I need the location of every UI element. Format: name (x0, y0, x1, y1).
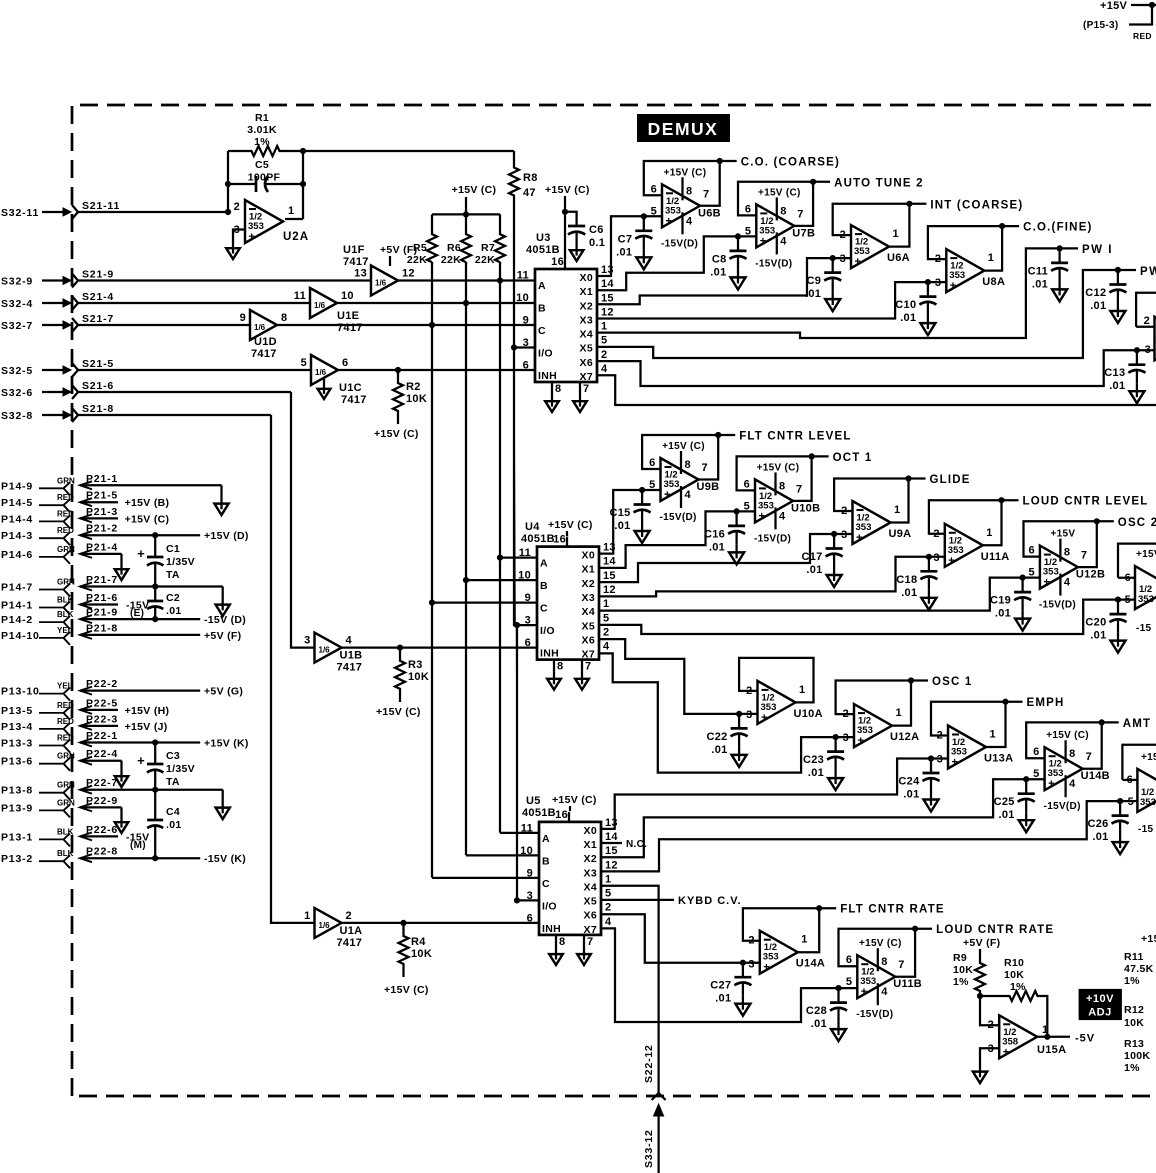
svg-text:10K: 10K (953, 964, 973, 976)
capacitor C22 (707, 711, 748, 767)
capacitor C5 100PF (228, 159, 303, 192)
svg-text:INH: INH (540, 648, 559, 660)
svg-text:I/O: I/O (542, 900, 557, 912)
svg-text:FLT CNTR LEVEL: FLT CNTR LEVEL (739, 431, 851, 443)
ground for P21-7 (216, 587, 230, 617)
svg-text:+: + (1003, 1046, 1009, 1058)
op-amp U9A (834, 474, 971, 544)
svg-text:X0: X0 (580, 272, 593, 284)
svg-text:S21-5: S21-5 (82, 358, 114, 370)
svg-text:P14-9: P14-9 (1, 480, 33, 492)
op-amp U9B (642, 431, 852, 524)
svg-text:2: 2 (601, 349, 607, 361)
node P21-3 (P14-4) (1, 506, 169, 529)
svg-text:2: 2 (1144, 315, 1150, 327)
svg-text:R12: R12 (1124, 1004, 1144, 1016)
capacitor C20 (1085, 597, 1126, 653)
svg-text:7417: 7417 (337, 937, 363, 949)
svg-text:.01: .01 (1090, 630, 1106, 642)
svg-text:8: 8 (555, 383, 561, 395)
svg-text:C26: C26 (1088, 818, 1109, 830)
svg-text:OSC 2: OSC 2 (1118, 517, 1156, 529)
svg-text:8: 8 (881, 956, 887, 968)
svg-text:7417: 7417 (337, 662, 363, 674)
svg-text:1/6: 1/6 (254, 323, 266, 332)
node +15V (P15-3) RED supply entry (1083, 0, 1156, 41)
svg-text:14: 14 (601, 278, 614, 290)
svg-text:+: + (664, 489, 670, 501)
capacitor C11 (1028, 245, 1068, 301)
wire U5 X3 to sheet-edge op-amp pin5 (601, 801, 1120, 871)
resistor R9 10K 1% (953, 952, 985, 996)
op-amp U10B (737, 452, 873, 545)
svg-text:.01: .01 (811, 1018, 827, 1030)
svg-text:S32-8: S32-8 (1, 410, 33, 422)
svg-text:3: 3 (748, 959, 754, 971)
capacitor C25 (994, 776, 1035, 832)
wire U1D out to U3 pin C (277, 324, 535, 326)
capacitor C7 (616, 213, 652, 269)
svg-text:P21-6: P21-6 (86, 592, 118, 604)
svg-text:-15V(D): -15V(D) (755, 258, 792, 269)
node P21-1 (P14-9) (1, 473, 222, 496)
svg-text:+15V (C): +15V (C) (662, 441, 705, 452)
svg-text:X1: X1 (582, 564, 595, 576)
svg-text:16: 16 (555, 809, 568, 821)
svg-text:8: 8 (779, 480, 785, 492)
svg-text:4051B: 4051B (521, 533, 555, 545)
svg-text:7: 7 (898, 959, 904, 971)
svg-text:U11A: U11A (981, 551, 1010, 563)
svg-text:+15V: +15V (1050, 529, 1075, 540)
svg-text:1%: 1% (1010, 981, 1026, 993)
svg-text:6: 6 (846, 954, 852, 966)
svg-text:BLK: BLK (57, 827, 74, 836)
svg-text:+15V (C): +15V (C) (664, 167, 707, 178)
wire R9/R10 node to U15A pin2 (977, 993, 1001, 1025)
svg-text:P21-4: P21-4 (86, 541, 118, 553)
svg-text:X4: X4 (582, 606, 595, 618)
op-amp U6B (644, 157, 840, 250)
svg-text:U1F: U1F (343, 244, 365, 256)
svg-text:INT (COARSE): INT (COARSE) (930, 199, 1023, 211)
svg-text:P21-3: P21-3 (86, 506, 118, 518)
capacitor C24 (898, 755, 939, 811)
svg-text:X2: X2 (582, 578, 595, 590)
buffer U1D (240, 310, 288, 360)
svg-text:U6A: U6A (887, 252, 910, 264)
svg-text:YEL: YEL (57, 626, 73, 635)
op-amp U13B (partial at sheet edge) (1118, 544, 1156, 634)
svg-text:7: 7 (585, 661, 591, 673)
svg-text:X5: X5 (582, 620, 595, 632)
svg-text:7: 7 (1086, 751, 1092, 763)
svg-text:1: 1 (894, 504, 900, 516)
demultiplexer U5 4051B (520, 809, 618, 965)
wire U5 X2 to U14B pin5 (601, 779, 1045, 857)
svg-text:P13-10: P13-10 (1, 686, 40, 698)
svg-text:U9A: U9A (889, 528, 912, 540)
svg-text:6: 6 (744, 478, 750, 490)
svg-text:YEL: YEL (57, 682, 73, 691)
svg-text:8: 8 (557, 661, 563, 673)
svg-text:P22-1: P22-1 (86, 730, 118, 742)
svg-text:7: 7 (796, 483, 802, 495)
svg-text:1: 1 (801, 934, 807, 946)
svg-text:RED: RED (57, 509, 74, 518)
svg-text:4051B: 4051B (522, 807, 556, 819)
node P22-6 (P13-1) (1, 824, 149, 847)
wire U5 X7 to U11B pin5 (601, 928, 857, 1022)
svg-text:4: 4 (686, 215, 693, 227)
svg-text:C27: C27 (710, 980, 731, 992)
wire U4 X0 to U9B pin5 (599, 490, 661, 554)
node PW2 output (1118, 266, 1156, 278)
svg-text:X3: X3 (584, 867, 597, 879)
svg-text:X6: X6 (582, 634, 595, 646)
svg-text:P21-8: P21-8 (86, 622, 118, 634)
svg-text:U1B: U1B (340, 650, 363, 662)
svg-text:.01: .01 (616, 246, 632, 258)
svg-text:AUTO TUNE 2: AUTO TUNE 2 (834, 177, 924, 189)
svg-text:-15: -15 (1136, 623, 1151, 634)
svg-text:+15V (C): +15V (C) (1046, 730, 1089, 741)
svg-text:U1A: U1A (340, 925, 363, 937)
svg-text:GRN: GRN (57, 476, 75, 485)
svg-text:X3: X3 (582, 592, 595, 604)
svg-text:S32-4: S32-4 (1, 298, 33, 310)
node +5V (F) above U1F (380, 244, 417, 266)
svg-text:-5V: -5V (1075, 1033, 1095, 1045)
svg-text:P13-6: P13-6 (1, 756, 33, 768)
svg-text:8: 8 (559, 936, 565, 948)
svg-text:+5V (F): +5V (F) (204, 630, 241, 642)
svg-text:+15V (C): +15V (C) (758, 187, 801, 198)
node S21-4 input from S32-4 (1, 291, 310, 310)
svg-text:1/6: 1/6 (319, 921, 331, 930)
svg-text:C: C (538, 325, 546, 337)
svg-text:+: + (760, 235, 766, 247)
node KYBD C.V. on U5 X5 (601, 895, 742, 907)
svg-text:X0: X0 (582, 550, 595, 562)
svg-text:2: 2 (841, 505, 847, 517)
svg-text:A: A (542, 833, 550, 845)
ground for P21-4 (115, 554, 128, 580)
wire U3 X0 to U6B pin5 (597, 216, 662, 276)
svg-text:-15V (D): -15V (D) (204, 614, 246, 626)
svg-text:C25: C25 (994, 796, 1015, 808)
svg-text:OSC 1: OSC 1 (932, 676, 973, 688)
node P21-9 (P14-2) (1, 607, 246, 630)
node S21-8 input from S32-8 (1, 403, 271, 422)
capacitor C17 (802, 531, 843, 587)
svg-text:X3: X3 (580, 314, 593, 326)
svg-text:C7: C7 (618, 233, 633, 245)
resistor R13 100K 1% label (1124, 1038, 1150, 1074)
svg-text:2: 2 (843, 708, 849, 720)
node +5V (F) supply (963, 937, 1000, 958)
svg-text:P22-7: P22-7 (86, 777, 118, 789)
svg-text:U8A: U8A (982, 276, 1005, 288)
op-amp U14B (1026, 718, 1151, 812)
svg-text:7: 7 (587, 936, 593, 948)
svg-text:C17: C17 (802, 551, 823, 563)
svg-text:R10: R10 (1004, 957, 1024, 969)
svg-text:P21-7: P21-7 (86, 574, 118, 586)
svg-text:C6: C6 (589, 224, 604, 236)
svg-text:RED: RED (57, 717, 74, 726)
svg-text:2: 2 (937, 730, 943, 742)
svg-text:9: 9 (523, 315, 529, 327)
svg-text:5: 5 (603, 612, 609, 624)
svg-text:7: 7 (583, 383, 589, 395)
svg-text:-15V (K): -15V (K) (204, 853, 246, 865)
wire select bus A (R7) (497, 262, 503, 833)
svg-text:S32-9: S32-9 (1, 276, 33, 288)
svg-text:6: 6 (745, 203, 751, 215)
op-amp U7B (738, 177, 924, 269)
svg-text:GRN: GRN (57, 752, 75, 761)
capacitor C27 (710, 960, 751, 1016)
svg-text:U12A: U12A (890, 731, 919, 743)
svg-text:7: 7 (1081, 550, 1087, 562)
node P21-2 (P14-3) (1, 523, 249, 546)
svg-text:.01: .01 (806, 564, 822, 576)
svg-text:.01: .01 (166, 605, 182, 617)
svg-text:KYBD C.V.: KYBD C.V. (678, 895, 742, 907)
svg-text:.01: .01 (998, 809, 1014, 821)
svg-text:U1C: U1C (339, 382, 362, 394)
svg-text:A: A (538, 280, 546, 292)
svg-text:4: 4 (346, 635, 353, 647)
wire R10 to U15A output (1037, 996, 1095, 1045)
wire U3 X4 to PW1 (597, 248, 1060, 338)
svg-text:7: 7 (797, 208, 803, 220)
svg-text:RED: RED (57, 526, 74, 535)
svg-text:13: 13 (354, 268, 367, 280)
resistor R5 22K (407, 214, 437, 266)
op-amp U8A (928, 222, 1093, 293)
svg-text:(P15-3): (P15-3) (1083, 20, 1118, 31)
svg-text:14: 14 (603, 556, 616, 568)
svg-text:+15V (K): +15V (K) (204, 738, 249, 750)
svg-text:1: 1 (799, 684, 805, 696)
buffer U1A (304, 908, 362, 949)
svg-text:1%: 1% (1124, 1062, 1140, 1074)
svg-text:5: 5 (1125, 594, 1131, 606)
wire U3 X1 to U7B pin5 (597, 236, 756, 290)
svg-text:X6: X6 (580, 357, 593, 369)
svg-text:+5V (F): +5V (F) (380, 244, 417, 256)
op-amp U15A (980, 1015, 1066, 1064)
svg-text:U15A: U15A (1037, 1044, 1066, 1056)
node S21-6 input from S32-6 (1, 380, 291, 399)
svg-text:1: 1 (896, 707, 902, 719)
svg-text:P21-5: P21-5 (86, 490, 118, 502)
svg-text:C24: C24 (898, 776, 920, 788)
ground below C6 (570, 243, 584, 261)
svg-text:INH: INH (538, 370, 557, 382)
node P22-8 (P13-2) (1, 846, 246, 869)
svg-text:+15V (B): +15V (B) (125, 497, 170, 509)
svg-text:+: + (948, 555, 954, 567)
svg-text:6: 6 (651, 183, 657, 195)
svg-text:S32-5: S32-5 (1, 365, 33, 377)
wire U1A out to U5 INH (342, 920, 540, 926)
capacitor C1 1/35V TA (137, 532, 195, 590)
svg-text:C18: C18 (896, 574, 917, 586)
svg-text:+15V (C): +15V (C) (552, 794, 597, 806)
capacitor C9 (805, 255, 841, 311)
wire U5 X4 to S22-12 (601, 886, 659, 1093)
svg-text:7417: 7417 (251, 348, 277, 360)
svg-text:5: 5 (601, 335, 607, 347)
svg-text:R7: R7 (481, 242, 495, 254)
node P22-5 (P13-5) (1, 697, 169, 720)
svg-text:C13: C13 (1104, 367, 1125, 379)
demultiplexer U4 4051B (518, 534, 616, 690)
node P22-2 (P13-10) (1, 678, 243, 701)
svg-text:BLK: BLK (57, 610, 74, 619)
svg-text:4051B: 4051B (526, 244, 560, 256)
svg-text:R6: R6 (447, 242, 461, 254)
svg-text:11: 11 (294, 290, 306, 302)
svg-text:C3: C3 (166, 750, 180, 762)
svg-text:U14B: U14B (1081, 770, 1110, 782)
DEMUX title block (637, 114, 730, 142)
svg-text:2: 2 (840, 229, 846, 241)
svg-text:+5V (F): +5V (F) (963, 937, 1000, 949)
svg-text:C28: C28 (806, 1005, 827, 1017)
svg-text:A: A (540, 558, 548, 570)
svg-text:C5: C5 (255, 159, 269, 171)
wire U4 X7 to U12A pin3 (600, 653, 854, 772)
svg-text:+: + (761, 712, 767, 724)
svg-text:+15V (C): +15V (C) (376, 706, 421, 718)
svg-text:4: 4 (1069, 778, 1076, 790)
svg-text:S33-12: S33-12 (643, 1129, 655, 1168)
buffer U1B (304, 633, 362, 674)
node P22-7 (P13-8) (1, 777, 223, 800)
svg-text:.01: .01 (1032, 278, 1048, 290)
svg-text:R13: R13 (1124, 1038, 1144, 1050)
svg-text:+: + (950, 280, 956, 292)
svg-text:U3: U3 (536, 232, 551, 244)
svg-text:B: B (542, 855, 550, 867)
svg-text:P22-9: P22-9 (86, 795, 118, 807)
svg-text:X7: X7 (584, 924, 597, 936)
svg-text:10: 10 (516, 292, 529, 304)
capacitor C19 (990, 575, 1031, 631)
svg-text:C9: C9 (807, 275, 822, 287)
svg-text:R1: R1 (255, 112, 269, 124)
svg-text:U12B: U12B (1076, 569, 1105, 581)
ground for P21-1 (214, 485, 228, 515)
svg-text:S22-12: S22-12 (643, 1044, 655, 1083)
wire select bus C (R5) (429, 262, 435, 878)
svg-text:1/35V: 1/35V (166, 763, 195, 775)
svg-text:RED: RED (1133, 31, 1152, 41)
svg-text:AMT: AMT (1123, 718, 1152, 730)
ground for P22-9 (115, 807, 128, 833)
svg-text:6: 6 (1125, 572, 1131, 584)
capacitor C4 .01 (147, 790, 181, 862)
svg-text:15: 15 (605, 845, 618, 857)
svg-text:12: 12 (601, 306, 614, 318)
svg-text:6: 6 (525, 637, 531, 649)
wire U3 X3 to U8A pin3 (597, 282, 946, 318)
capacitor C23 (803, 734, 844, 790)
svg-text:C23: C23 (803, 754, 824, 766)
node +15V (C) above R6 (452, 184, 497, 217)
svg-text:OCT 1: OCT 1 (833, 452, 873, 464)
wire select bus B (R6) (463, 262, 469, 855)
svg-text:14: 14 (605, 831, 618, 843)
svg-text:10K: 10K (411, 948, 432, 960)
wire U3 X2 to U6A pin3 (597, 258, 851, 304)
node P21-4 (P14-6) (1, 541, 122, 564)
resistor R12 10K label (1124, 1004, 1144, 1029)
svg-text:8: 8 (1064, 547, 1070, 559)
svg-text:6: 6 (527, 912, 533, 924)
node P21-5 (P14-5) (1, 490, 169, 513)
svg-text:B: B (540, 580, 548, 592)
buffer U1E (294, 288, 363, 334)
svg-text:P14-3: P14-3 (1, 530, 33, 542)
svg-text:X7: X7 (580, 371, 593, 383)
svg-text:P13-9: P13-9 (1, 802, 33, 814)
svg-text:13: 13 (605, 817, 618, 829)
svg-text:22K: 22K (475, 254, 495, 266)
resistor R2 10K (374, 370, 427, 440)
svg-text:4: 4 (603, 641, 610, 653)
node S21-11 input from S32-11 (1, 200, 228, 219)
capacitor C15 (610, 487, 651, 543)
capacitor C28 (806, 985, 847, 1041)
capacitor C16 (704, 508, 745, 564)
svg-text:X5: X5 (584, 896, 597, 908)
svg-text:1: 1 (605, 874, 611, 886)
capacitor C6 0.1 (565, 212, 605, 249)
svg-text:9: 9 (240, 312, 246, 324)
svg-text:C20: C20 (1085, 617, 1106, 629)
svg-text:7417: 7417 (343, 256, 369, 268)
wire R1/C5 feedback rails (225, 148, 306, 219)
svg-text:+15V (C): +15V (C) (859, 938, 902, 949)
svg-text:P22-6: P22-6 (86, 824, 118, 836)
op-amp U10A (739, 658, 823, 724)
demultiplexer U3 4051B (516, 256, 614, 412)
svg-text:U4: U4 (525, 521, 540, 533)
svg-text:+15V: +15V (1100, 0, 1128, 12)
svg-text:100K: 100K (1124, 1050, 1150, 1062)
svg-text:C4: C4 (166, 806, 180, 818)
resistor R1 3.01K 1% (228, 112, 303, 156)
svg-text:C16: C16 (704, 528, 725, 540)
svg-text:1%: 1% (1124, 975, 1140, 987)
svg-text:10K: 10K (406, 393, 427, 405)
svg-text:1: 1 (1042, 1024, 1048, 1036)
svg-text:X2: X2 (580, 300, 593, 312)
wire U5 X6 to U14A pin3 (601, 914, 760, 963)
svg-text:1: 1 (603, 598, 609, 610)
svg-text:+: + (858, 735, 864, 747)
svg-text:1/6: 1/6 (319, 646, 331, 655)
svg-text:2: 2 (988, 1019, 994, 1031)
svg-text:R4: R4 (411, 936, 426, 948)
wire U1C out to U3 INH (338, 367, 535, 373)
svg-text:P22-5: P22-5 (86, 697, 118, 709)
